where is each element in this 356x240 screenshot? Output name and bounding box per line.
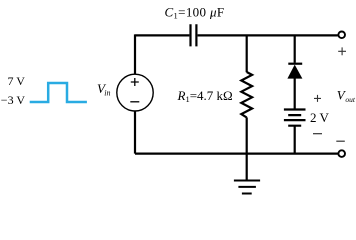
svg-text:R1=4.7 kΩ: R1=4.7 kΩ [177,88,233,104]
svg-text:C1=100 μF: C1=100 μF [165,4,225,20]
svg-text:−3 V: −3 V [1,93,26,107]
svg-text:7 V: 7 V [8,74,26,88]
svg-text:in: in [104,89,110,98]
svg-text:2 V: 2 V [310,110,330,125]
svg-text:out: out [345,95,356,104]
